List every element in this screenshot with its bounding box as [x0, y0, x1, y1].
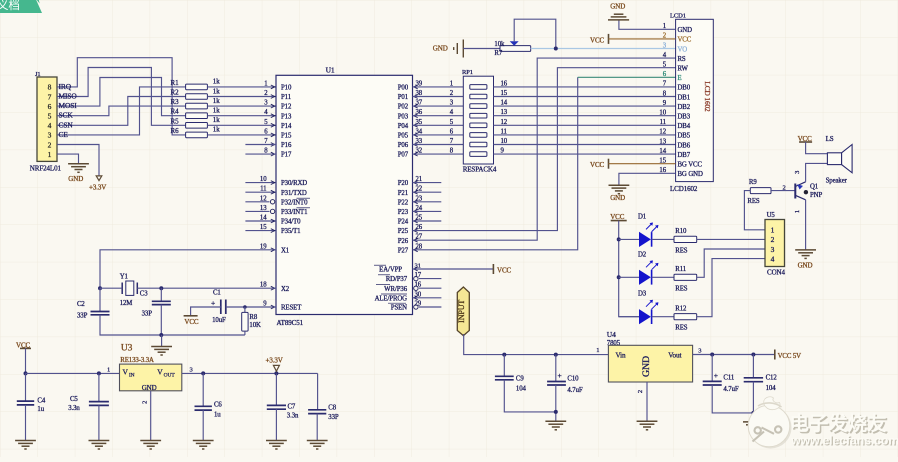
browser tab decoration [0, 0, 42, 13]
svg-text:GND: GND [798, 262, 813, 270]
svg-text:10k: 10k [494, 41, 505, 48]
svg-text:LCD1: LCD1 [670, 12, 686, 19]
svg-text:P30/RXD: P30/RXD [281, 180, 307, 187]
U1 pin 32 arrow [414, 152, 418, 156]
led D3 emission arrows [646, 300, 658, 309]
wire MISO net J1.7 to R5 [57, 68, 186, 126]
wire R10 to U5 pin2 [697, 238, 765, 240]
junction C5 tap [97, 371, 101, 375]
capacitor C2 [91, 312, 110, 315]
U1 pin 29 bubble [414, 305, 418, 309]
svg-text:+3.3V: +3.3V [266, 356, 283, 364]
svg-text:U4: U4 [607, 330, 616, 339]
svg-text:OUT: OUT [164, 372, 176, 378]
svg-text:3: 3 [48, 131, 52, 140]
svg-text:X1: X1 [281, 247, 289, 254]
wire C1 to RESET [226, 306, 276, 308]
U1 pin 8 arrow [271, 152, 275, 156]
wire C6 to gnd [202, 410, 204, 440]
wire C11 branch [711, 355, 713, 382]
wire C8 to gnd [316, 414, 318, 441]
stub wire U1 pin 25 [413, 220, 442, 222]
svg-text:VO: VO [678, 46, 688, 53]
svg-text:电子发烧友: 电子发烧友 [790, 412, 888, 435]
junction C11 tap [710, 353, 714, 357]
svg-text:1u: 1u [37, 406, 44, 413]
wire RP1 pin 13 to LCD DB3 [494, 115, 676, 117]
ground below U3 [140, 441, 161, 450]
ground rotated at R7 [454, 40, 464, 58]
U1 pin 9 arrow [271, 305, 275, 309]
wire R7 wiper to VO net [514, 19, 556, 48]
U1 pin 30 arrow [414, 296, 418, 300]
junction C3 tap [159, 286, 163, 290]
svg-text:P13: P13 [281, 113, 292, 120]
stub wire U1 pin 23 [413, 201, 442, 203]
junction VO wiper [554, 47, 558, 51]
resistor R11 [674, 274, 697, 280]
svg-text:VCC: VCC [590, 36, 605, 44]
wire R12 to U5 pin4 [697, 259, 765, 317]
wire U1 P26 to LCD RS [413, 58, 676, 240]
svg-text:1: 1 [794, 210, 801, 213]
junction C9 C10 bottom [554, 410, 558, 414]
U1 pin 39 arrow [414, 85, 418, 89]
capacitor C11 polarized [703, 381, 722, 385]
svg-text:P10: P10 [281, 85, 292, 92]
svg-text:LCD1602: LCD1602 [670, 185, 698, 193]
stub wire U1 pin 11 [245, 191, 276, 193]
ground below C12 [743, 422, 764, 431]
svg-text:GND: GND [610, 194, 625, 202]
wire CSN net J1.4 to R2 [57, 97, 186, 126]
wire C3 branch [160, 288, 162, 301]
U1 pin 34 arrow [414, 133, 418, 137]
wire J1.1 to GND [57, 154, 79, 164]
svg-text:1u: 1u [214, 412, 221, 419]
wire IRQ net J1.8 to R6 [57, 58, 186, 135]
svg-text:13: 13 [659, 138, 666, 145]
led D2 emission arrows [646, 260, 658, 269]
svg-text:GND: GND [68, 175, 83, 183]
wire crystal right to X2 [137, 287, 276, 289]
wire VCC to speaker [806, 142, 828, 154]
wire LCD pin1 to GND [619, 20, 676, 29]
wire U1 P27 to LCD E vertical [413, 77, 578, 250]
wire C3 to gnd rail [160, 305, 162, 335]
svg-text:P14: P14 [281, 123, 292, 130]
led D1 emission arrows [646, 223, 658, 232]
junction +3.3V C7 tap [274, 371, 278, 375]
U1 pin 3 arrow [271, 104, 275, 108]
transistor Q1 emitter [795, 182, 805, 187]
capacitor C6 [195, 406, 212, 410]
junction D1 tap [617, 237, 621, 241]
wire J1.2 to +3.3V [57, 145, 99, 176]
RP1 internal resistor 6 [470, 133, 487, 138]
wire R8 bottom to gnd rail [244, 331, 246, 335]
wire U1 P02 to RP1 pin 3 [413, 105, 464, 107]
U1 pin 10 arrow [271, 181, 275, 185]
resistor R9 [750, 188, 771, 194]
wire RP1 pin 11 to LCD DB5 [494, 134, 676, 136]
svg-text:P35/T1: P35/T1 [281, 228, 300, 235]
svg-text:BG GND: BG GND [678, 171, 703, 178]
svg-text:3: 3 [794, 171, 801, 174]
svg-text:16: 16 [501, 80, 508, 87]
svg-text:3: 3 [771, 245, 775, 254]
ground below Q1 [795, 250, 816, 259]
svg-text:P26: P26 [398, 238, 409, 245]
svg-text:3.3n: 3.3n [287, 413, 299, 420]
resistor R8 [242, 312, 248, 331]
svg-text:R6: R6 [171, 127, 180, 135]
U1 pin 4 arrow [271, 114, 275, 118]
svg-text:Vin: Vin [616, 352, 627, 360]
junction C6 tap [201, 371, 205, 375]
mcu U1 box [276, 75, 413, 314]
svg-text:13: 13 [501, 109, 508, 116]
svg-text:4.7uF: 4.7uF [723, 386, 738, 393]
svg-text:Vout: Vout [668, 352, 681, 360]
svg-text:V: V [123, 368, 129, 377]
wire U3 input rail [26, 372, 120, 374]
wire C8 branch [317, 373, 319, 409]
svg-text:+: + [211, 299, 215, 308]
svg-text:33P: 33P [328, 414, 339, 421]
wire R2 to U1 P11 [207, 96, 276, 98]
svg-text:C11: C11 [723, 375, 734, 382]
RP1 internal resistor 4 [470, 113, 487, 118]
svg-text:2: 2 [771, 235, 775, 244]
ground below C10 [545, 421, 566, 430]
wire RP1 pin 12 to LCD DB4 [494, 124, 676, 126]
svg-text:7: 7 [48, 92, 52, 101]
capacitor C4 [17, 401, 34, 405]
wire D3 to R12 [652, 316, 674, 318]
svg-text:R10: R10 [675, 228, 687, 235]
svg-text:14: 14 [659, 148, 666, 155]
svg-text:CON4: CON4 [767, 269, 785, 277]
stub wire U1 pin 14 [245, 220, 276, 222]
svg-text:Y1: Y1 [120, 274, 128, 281]
led D2 triangle [639, 270, 651, 285]
power VCC 5V bar [774, 350, 776, 360]
svg-text:2: 2 [637, 390, 644, 393]
svg-text:GND: GND [142, 384, 157, 392]
junction R8 top [243, 305, 247, 309]
svg-text:10K: 10K [249, 322, 261, 329]
wire VCC to U3 rail [25, 348, 27, 373]
ground below C4 [15, 441, 36, 450]
wire R8 top [244, 307, 246, 312]
svg-text:RW: RW [678, 66, 689, 73]
svg-text:VCC: VCC [590, 161, 605, 169]
svg-text:C10: C10 [567, 376, 579, 383]
svg-text:RES: RES [675, 247, 687, 254]
resistor R12 [674, 314, 697, 320]
wire U1 P01 to RP1 pin 2 [413, 96, 464, 98]
junction C11 C12 bottom [751, 411, 755, 415]
wire R4 to U1 P13 [207, 115, 276, 117]
svg-text:RE133-3.3A: RE133-3.3A [120, 357, 154, 364]
stub wire U1 pin 12 [245, 201, 269, 203]
svg-text:X2: X2 [281, 286, 290, 293]
capacitor C10 polarized [547, 382, 566, 386]
capacitor C9 [495, 376, 514, 380]
U1 pin 14 arrow [271, 219, 275, 223]
svg-text:P02: P02 [398, 104, 409, 111]
ground above LCD [608, 14, 629, 20]
svg-text:2: 2 [142, 401, 149, 404]
U1 pin 17 bubble [414, 276, 418, 280]
power VCC bar above speaker [799, 141, 812, 143]
svg-text:8: 8 [48, 83, 52, 92]
svg-text:11: 11 [660, 119, 666, 126]
wire U1 P06 to RP1 pin 7 [413, 144, 464, 146]
crystal Y1 [122, 283, 137, 295]
svg-text:C2: C2 [77, 301, 85, 308]
wire E to LCD pin6 [578, 76, 676, 78]
RP1 internal resistor 2 [470, 94, 487, 99]
svg-text:AT89C51: AT89C51 [277, 319, 304, 327]
svg-text:3: 3 [698, 347, 701, 354]
svg-text:1: 1 [450, 80, 453, 87]
svg-text:1: 1 [264, 80, 267, 87]
U1 pin 5 arrow [271, 123, 275, 127]
svg-text:1k: 1k [213, 78, 220, 86]
svg-text:P01: P01 [398, 94, 408, 101]
power VCC bar at LCD pin2 [608, 34, 610, 44]
led D1 triangle [639, 232, 651, 247]
svg-text:DB5: DB5 [678, 133, 691, 140]
svg-text:C1: C1 [213, 290, 221, 297]
ground rail stub [161, 335, 163, 347]
svg-text:IN: IN [129, 372, 135, 378]
svg-text:12: 12 [501, 119, 508, 126]
wire C4 branch [25, 373, 27, 400]
stub wire U1 pin 22 [413, 191, 442, 193]
U1 pin 23 arrow [414, 200, 418, 204]
wire C5 branch [98, 373, 100, 401]
svg-text:P00: P00 [398, 85, 409, 92]
svg-text:DB3: DB3 [678, 114, 691, 121]
wire R3 to U1 P12 [207, 105, 276, 107]
svg-text:GND: GND [433, 45, 448, 53]
wire LCD pin16 to GND [619, 173, 676, 185]
overline PROG [381, 293, 407, 295]
wire rail to D1 [619, 238, 639, 240]
resistor R10 [674, 236, 697, 242]
svg-text:4: 4 [771, 254, 775, 263]
U1 pin 28 arrow [414, 248, 418, 252]
U1 pin 6 arrow [271, 133, 275, 137]
svg-text:12: 12 [659, 129, 666, 136]
wire C9 bottom rail [504, 380, 556, 412]
svg-text:11: 11 [501, 128, 507, 135]
svg-text:DB1: DB1 [678, 94, 691, 101]
U1 pin 16 bubble [414, 286, 418, 290]
svg-text:C8: C8 [328, 405, 336, 412]
U1 pin 31 arrow [414, 267, 418, 271]
junction X1 vertical at crystal [98, 286, 102, 290]
svg-text:RESPACK4: RESPACK4 [463, 165, 497, 173]
svg-text:EA/VPP: EA/VPP [379, 267, 402, 274]
speaker LS [827, 153, 841, 165]
svg-text:6: 6 [48, 102, 52, 111]
svg-text:3: 3 [190, 366, 193, 373]
svg-text:12M: 12M [120, 300, 133, 307]
svg-text:C5: C5 [70, 396, 78, 403]
transistor Q1 collector [795, 195, 805, 200]
svg-text:P12: P12 [281, 104, 292, 111]
wire U3 out rail [182, 372, 318, 374]
svg-text:Q1: Q1 [810, 183, 818, 190]
svg-text:ALE/PROG: ALE/PROG [375, 295, 408, 302]
power VCC bar at LCD pin15 [608, 159, 610, 169]
wire C7 to gnd [275, 409, 277, 440]
svg-text:NRF24L01: NRF24L01 [30, 164, 62, 172]
svg-text:BG VCC: BG VCC [678, 162, 703, 169]
stub wire U1 pin 21 [413, 182, 442, 184]
capacitor C5 [89, 402, 109, 406]
svg-text:R4: R4 [171, 108, 180, 116]
svg-text:DB0: DB0 [678, 85, 691, 92]
svg-text:MOSI: MOSI [59, 101, 78, 110]
svg-text:14: 14 [501, 100, 508, 107]
wire R9 to Q1 base [771, 190, 795, 192]
svg-text:V: V [157, 368, 163, 377]
ground at J1 [68, 164, 89, 173]
wire LED rail [619, 221, 639, 317]
wire RP1 pin 10 to LCD DB6 [494, 144, 676, 146]
U1 pin 15 arrow [271, 229, 275, 233]
connector J1 [37, 77, 57, 161]
wire C10 branch [555, 355, 557, 382]
svg-text:104: 104 [766, 385, 777, 392]
wire C12 to gnd [752, 382, 754, 422]
wire U1 P03 to RP1 pin 4 [413, 115, 464, 117]
wire CE net J1.3 to R1 [57, 87, 186, 135]
wire rail to D2 [619, 276, 639, 278]
transistor Q1 base bar [794, 184, 796, 199]
svg-text:P06: P06 [398, 142, 409, 149]
wire SCK net J1.5 to R3 [57, 106, 186, 116]
svg-text:R2: R2 [171, 89, 180, 97]
svg-text:RES: RES [675, 325, 687, 332]
overline RD [378, 274, 390, 276]
wire R7 to LCD VO [531, 48, 676, 50]
capacitor C3 [152, 301, 171, 304]
svg-text:C9: C9 [516, 376, 524, 383]
svg-text:PNP: PNP [810, 192, 822, 199]
svg-text:P07: P07 [398, 152, 409, 159]
U1 pin 13 bubble [270, 209, 274, 213]
svg-text:1: 1 [48, 150, 52, 159]
stub wire U1 pin8 P17 [245, 153, 276, 155]
svg-text:D2: D2 [638, 251, 647, 258]
ground below U4 [637, 421, 658, 430]
U1 pin 1 arrow [271, 85, 275, 89]
wire D2 to R11 [652, 276, 674, 278]
U1 pin 38 arrow [414, 95, 418, 99]
svg-text:3.3n: 3.3n [68, 405, 80, 412]
svg-text:1k: 1k [213, 107, 220, 115]
svg-text:P11: P11 [281, 94, 291, 101]
stub wire U1 pin 17 [419, 278, 441, 280]
wire MOSI net J1.6 to R4 [57, 78, 186, 116]
power VCC bar at EA [492, 264, 494, 274]
svg-text:义档: 义档 [0, 0, 20, 12]
watermark logo circle [748, 397, 791, 449]
svg-text:P20: P20 [398, 180, 409, 187]
junction D2 tap [617, 275, 621, 279]
wire D1 to R10 [652, 238, 674, 240]
svg-text:VCC 5V: VCC 5V [778, 353, 802, 360]
svg-text:DB6: DB6 [678, 142, 691, 149]
svg-text:10: 10 [659, 110, 666, 117]
svg-text:33P: 33P [142, 310, 153, 317]
svg-text:RESET: RESET [281, 305, 302, 312]
svg-text:E: E [678, 75, 682, 82]
connector U5 box [765, 220, 785, 267]
svg-text:C6: C6 [214, 402, 222, 409]
svg-text:15: 15 [501, 90, 508, 97]
junction C12 tap [751, 353, 755, 357]
RP1 internal resistor 1 [470, 85, 487, 90]
stub wire U1 pin 13 [245, 210, 269, 212]
resistor R1 [186, 84, 208, 90]
svg-text:GND: GND [678, 27, 693, 34]
svg-text:U5: U5 [767, 212, 776, 219]
power +3.3V at J1 [96, 176, 102, 181]
overline EA [374, 264, 386, 266]
wire C10 to gnd [555, 385, 557, 421]
wire U4 gnd pin [646, 382, 648, 421]
svg-text:R11: R11 [675, 266, 686, 273]
U1 pin 18 arrow [271, 286, 275, 290]
led D3 triangle [639, 309, 651, 324]
wire U1 P05 to RP1 pin 6 [413, 134, 464, 136]
svg-text:CSN: CSN [59, 120, 74, 129]
svg-text:RES: RES [675, 285, 687, 292]
svg-text:P05: P05 [398, 133, 409, 140]
wire C1 to VCC [191, 307, 221, 316]
wire GND to R7 [463, 48, 500, 50]
RP1 internal resistor 8 [470, 152, 487, 157]
wire C5 to gnd [98, 405, 100, 440]
svg-text:R3: R3 [171, 98, 180, 106]
junction C9 tap [502, 353, 506, 357]
resistor R3 [186, 103, 208, 109]
wire U1 P00 to RP1 pin 1 [413, 86, 464, 88]
svg-text:P04: P04 [398, 123, 409, 130]
wire VCC to LCD pin2 [609, 38, 676, 40]
wire C12 branch [752, 355, 754, 378]
potentiometer R7 body [500, 46, 531, 52]
svg-text:R9: R9 [749, 179, 757, 186]
wire C2 to gnd rail [100, 315, 245, 335]
wire R1 to U1 P10 [207, 86, 276, 88]
stub wire U1 pin 16 [419, 287, 441, 289]
svg-text:P32/INT0: P32/INT0 [281, 199, 308, 206]
resistor R4 [186, 113, 208, 119]
svg-text:PSEN: PSEN [391, 305, 407, 312]
stub wire U1 pin 10 [245, 182, 276, 184]
ground below LCD [609, 185, 630, 194]
wire crystal left [100, 287, 122, 289]
svg-text:www.elecfans.com: www.elecfans.com [790, 433, 898, 447]
